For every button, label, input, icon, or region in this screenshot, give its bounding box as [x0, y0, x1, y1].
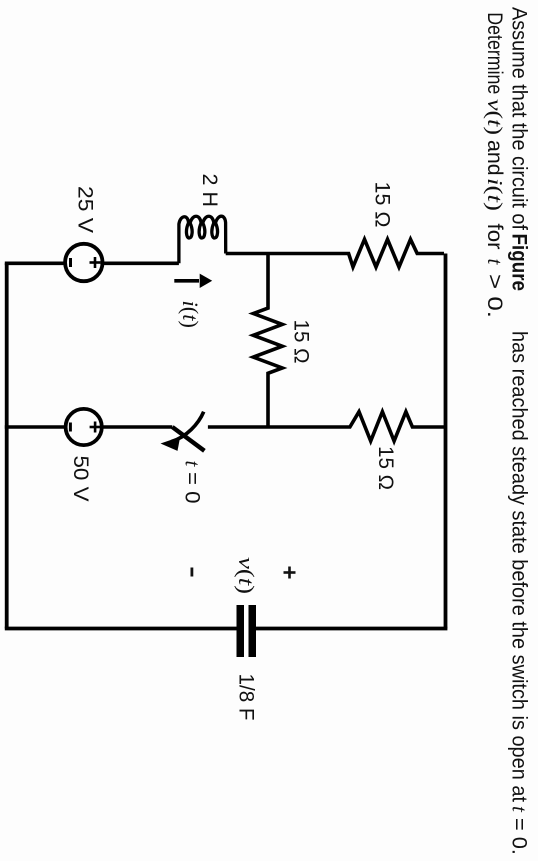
- problem statement line 2: [483, 12, 507, 318]
- wire: between switch and 50V source: [102, 425, 173, 429]
- wire: right rail lower segment: [5, 627, 237, 631]
- resistor R1 15 ohm left branch: [268, 239, 444, 267]
- resistor R2 15 ohm middle branch: [253, 254, 282, 428]
- svg-text:v(t): v(t): [483, 99, 507, 135]
- svg-text:15 Ω: 15 Ω: [371, 182, 394, 228]
- switch S1 opening at t=0: [161, 412, 205, 451]
- wire: right rail upper segment: [256, 627, 447, 631]
- svg-text:25 V: 25 V: [74, 186, 97, 233]
- svg-text:for: for: [483, 224, 506, 250]
- svg-text:= 0.: = 0.: [508, 818, 531, 855]
- svg-text:has reached steady state befor: has reached steady state before the swit…: [508, 331, 531, 802]
- label capacitor minus sign: [191, 568, 194, 577]
- voltage source V1 25 V: [65, 244, 102, 281]
- svg-text:50 V: 50 V: [69, 456, 92, 502]
- wire: top rail: [444, 254, 448, 629]
- wire: lower left branch above source: [102, 261, 179, 265]
- svg-text:i(t): i(t): [178, 301, 203, 329]
- wire: branch between node B and switch: [208, 425, 268, 429]
- svg-text:Determine: Determine: [483, 12, 506, 94]
- wire: bottom rail: [5, 263, 9, 628]
- svg-text:Figure: Figure: [508, 234, 531, 292]
- wire: lower left branch below source: [5, 261, 65, 265]
- label capacitor plus sign: [284, 567, 296, 579]
- resistor R3 15 ohm right middle branch: [268, 412, 444, 441]
- svg-text:i(t): i(t): [483, 178, 507, 211]
- svg-text:2 H: 2 H: [198, 174, 221, 208]
- voltage source V2 50 V: [66, 409, 102, 445]
- svg-text:15 Ω: 15 Ω: [374, 446, 397, 490]
- current arrow i(t): [174, 274, 212, 288]
- svg-text:> 0.: > 0.: [483, 274, 506, 318]
- node A junction left branch to middle resistor: [226, 252, 268, 256]
- wire: below 50V source to bottom rail: [5, 425, 66, 429]
- capacitor C1 top plate: [249, 605, 257, 657]
- problem statement line 1: [508, 7, 532, 855]
- svg-text:Assume that the circuit of: Assume that the circuit of: [508, 7, 531, 230]
- svg-text:15 Ω: 15 Ω: [290, 320, 313, 364]
- svg-text:= 0: = 0: [181, 472, 204, 504]
- svg-text:1/8 F: 1/8 F: [235, 674, 258, 721]
- inductor L1 2 H: [179, 216, 226, 263]
- svg-text:and: and: [483, 140, 506, 176]
- svg-text:v(t): v(t): [234, 557, 259, 594]
- capacitor C1 bottom plate: [237, 605, 245, 657]
- label switch t = 0: [181, 461, 205, 504]
